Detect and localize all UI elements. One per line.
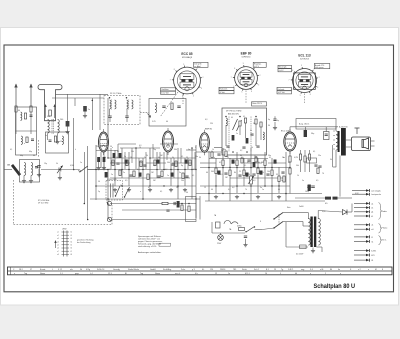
svg-text:5: 5 — [300, 95, 301, 97]
capacitor C15 — [238, 175, 241, 176]
svg-text:0,1: 0,1 — [167, 147, 169, 149]
svg-text:2n: 2n — [111, 174, 113, 176]
svg-text:AM: AM — [7, 164, 10, 167]
svg-text:13: 13 — [60, 141, 62, 143]
capacitor C10 — [171, 164, 174, 165]
wire drop to AM coil — [67, 94, 69, 121]
label box above T4 — [252, 102, 267, 106]
volume potentiometer P1 — [248, 176, 254, 184]
capacitor C21 boxed — [324, 132, 330, 140]
label box at ECC 85 pin 3 — [161, 88, 176, 91]
wire tuner output — [41, 169, 79, 171]
tube V4 ECL113 — [281, 129, 296, 154]
resistor R10 — [154, 160, 156, 166]
terminal X7 — [354, 235, 373, 238]
svg-text:30p: 30p — [223, 149, 226, 151]
wire speaker return — [332, 145, 334, 167]
svg-text:sind zulässig. ±10%: sind zulässig. ±10% — [138, 246, 157, 248]
svg-text:2n: 2n — [123, 172, 125, 174]
resistor R30 — [211, 152, 213, 158]
notes text block — [138, 235, 171, 254]
AM filter box 2 — [46, 132, 69, 153]
resistor R1 on antenna 1 — [15, 106, 17, 112]
antenna input arrow 2 — [29, 84, 32, 107]
svg-text:60: 60 — [33, 155, 35, 157]
svg-text:40: 40 — [211, 189, 213, 191]
svg-text:40: 40 — [158, 157, 160, 159]
ground — [169, 188, 173, 192]
svg-text:25p: 25p — [96, 146, 99, 148]
svg-text:4 Rg: 4 Rg — [86, 269, 90, 271]
antenna input arrow 1 — [14, 84, 17, 107]
svg-text:Ratio 230 V: Ratio 230 V — [252, 102, 263, 105]
svg-text:Ausg. Übertr.: Ausg. Übertr. — [299, 123, 310, 126]
transformer T1 AM antenna coil — [47, 116, 60, 144]
capacitor C17 — [266, 174, 269, 175]
T-antenna symbol — [38, 85, 62, 121]
svg-text:0,1: 0,1 — [313, 151, 315, 153]
svg-text:a6: a6 — [57, 248, 59, 250]
svg-text:Steuergitt.: Steuergitt. — [279, 66, 288, 69]
svg-text:0,1: 0,1 — [109, 169, 111, 171]
svg-text:5k: 5k — [211, 151, 213, 153]
svg-text:25: 25 — [186, 157, 188, 159]
ferrite rod antenna — [7, 164, 21, 176]
svg-text:30: 30 — [186, 192, 188, 194]
svg-text:50k: 50k — [296, 165, 299, 167]
AM filter box 1 — [16, 107, 37, 155]
svg-text:25n: 25n — [139, 162, 142, 164]
ground — [183, 188, 187, 192]
svg-text:2: 2 — [260, 75, 261, 77]
svg-text:6250/6AQ8: 6250/6AQ8 — [182, 56, 193, 59]
svg-text:4p: 4p — [268, 119, 270, 121]
svg-text:0,1: 0,1 — [148, 187, 150, 189]
wire mesh mixer/IF left — [87, 98, 200, 220]
svg-text:4: 4 — [310, 94, 311, 96]
svg-text:23: 23 — [274, 269, 276, 271]
svg-text:20k: 20k — [181, 180, 184, 182]
svg-text:62T/E253: 62T/E253 — [300, 58, 310, 60]
svg-text:0,5: 0,5 — [241, 157, 243, 159]
capacitor C9 — [157, 176, 160, 177]
resistor R35 — [105, 172, 108, 178]
svg-text:789: 789 — [233, 269, 236, 271]
terminal ext speaker 2 — [352, 193, 381, 196]
resistor R26 — [264, 160, 266, 166]
power transformer T6 — [286, 211, 322, 256]
resistor R6 — [126, 160, 128, 166]
IF transformer T2 FM 10.7 MHz (dashed box) — [104, 93, 140, 125]
svg-text:0,7M: 0,7M — [294, 157, 298, 159]
svg-text:30k: 30k — [174, 149, 177, 151]
svg-text:a3: a3 — [57, 238, 59, 240]
svg-text:0,1: 0,1 — [288, 162, 290, 164]
svg-text:5: 5 — [195, 147, 196, 149]
svg-text:D.R.P.: D.R.P. — [288, 269, 294, 271]
svg-text:EBF 80: EBF 80 — [205, 129, 213, 131]
svg-text:gepr.: gepr. — [75, 272, 80, 275]
svg-text:20: 20 — [233, 162, 235, 164]
svg-text:23456: 23456 — [220, 269, 225, 271]
svg-text:Zchn: Zchn — [181, 269, 185, 271]
svg-text:0,2: 0,2 — [165, 169, 167, 171]
svg-text:-0,6 V: -0,6 V — [279, 70, 285, 72]
capacitor C7 — [129, 175, 132, 176]
svg-text:Änderungen vorbehalten.: Änderungen vorbehalten. — [138, 251, 162, 254]
mains switch S5 — [262, 213, 295, 230]
svg-text:B 1: B 1 — [266, 269, 269, 271]
svg-text:300: 300 — [211, 171, 214, 173]
svg-text:4n: 4n — [255, 157, 257, 159]
resistor R24 — [243, 170, 245, 176]
svg-text:0,1: 0,1 — [181, 156, 183, 158]
capacitor C8 — [143, 165, 146, 166]
terminal X10 — [354, 254, 375, 257]
svg-text:0,3: 0,3 — [253, 180, 255, 182]
svg-text:1n: 1n — [262, 189, 264, 191]
svg-text:3: 3 — [258, 84, 259, 86]
resistor R21 — [222, 160, 224, 166]
resistor R25 — [257, 168, 259, 174]
svg-text:5k: 5k — [56, 163, 58, 165]
svg-text:124: 124 — [210, 269, 213, 271]
svg-text:40: 40 — [166, 121, 168, 123]
svg-text:20: 20 — [248, 174, 250, 176]
svg-text:240: 240 — [60, 119, 63, 121]
svg-text:8p: 8p — [181, 165, 183, 167]
svg-text:Ersatz: Ersatz — [40, 268, 45, 271]
ground — [256, 195, 260, 199]
svg-text:Tag: Tag — [140, 273, 143, 275]
resistor R28 — [278, 176, 280, 182]
svg-text:ECL 113: ECL 113 — [298, 53, 311, 57]
resistor R13 — [182, 173, 184, 179]
svg-text:a: a — [112, 147, 113, 149]
svg-text:0,5: 0,5 — [316, 180, 318, 182]
svg-text:k1: k1 — [371, 216, 373, 218]
svg-text:Netz: Netz — [287, 206, 291, 209]
svg-text:Spannungen mit Röhren-: Spannungen mit Röhren- — [138, 235, 162, 238]
terminal ext speaker 1 — [352, 189, 381, 192]
resistor R11 — [161, 171, 163, 177]
svg-text:8: 8 — [234, 68, 235, 70]
svg-text:70: 70 — [322, 173, 324, 175]
electrolytic capacitor C20 — [304, 130, 316, 137]
svg-text:6n: 6n — [283, 157, 285, 159]
svg-text:60: 60 — [18, 110, 20, 112]
junction dots — [95, 157, 290, 199]
band switch S1 — [79, 166, 108, 172]
svg-text:12.3: 12.3 — [108, 273, 112, 275]
fuse holders — [295, 197, 352, 205]
svg-text:0,1: 0,1 — [244, 165, 246, 167]
svg-text:6,3V1: 6,3V1 — [371, 251, 376, 253]
svg-text:12: 12 — [215, 273, 217, 275]
svg-text:gesehen in Richtung: gesehen in Richtung — [77, 238, 93, 241]
voltage selector — [212, 221, 245, 235]
component cluster below T4 — [241, 157, 260, 167]
resistor R9 — [147, 174, 149, 180]
svg-text:10k: 10k — [131, 151, 134, 153]
wire antenna stub — [4, 169, 12, 171]
resistor R2 on antenna 2 — [30, 106, 32, 112]
svg-text:0,9-2 Volt: 0,9-2 Volt — [161, 92, 169, 95]
svg-text:u1: u1 — [371, 225, 373, 227]
svg-text:0,5M: 0,5M — [70, 165, 74, 167]
capacitor C14 — [224, 173, 227, 174]
UKW tuner enclosure (dashed) — [13, 180, 15, 224]
coil box L2/L3 input tuning — [20, 160, 40, 183]
svg-text:1n: 1n — [236, 133, 238, 135]
ground — [214, 195, 218, 199]
resistor R23 — [236, 160, 238, 166]
svg-text:5p: 5p — [124, 156, 126, 158]
svg-text:k1: k1 — [71, 232, 73, 234]
svg-text:7k: 7k — [245, 189, 247, 191]
svg-text:0,2: 0,2 — [240, 150, 242, 152]
svg-text:6V m.: 6V m. — [382, 240, 388, 242]
phono jack J2 — [107, 217, 111, 221]
svg-text:0,1: 0,1 — [160, 191, 162, 193]
ground — [127, 188, 131, 192]
resistor R14 — [189, 160, 191, 166]
svg-text:5k: 5k — [116, 157, 118, 159]
svg-text:9n: 9n — [260, 187, 262, 189]
component value labels — [10, 119, 359, 223]
svg-text:a: a — [115, 192, 116, 194]
terminal X3 — [354, 210, 373, 213]
svg-text:(GW): (GW) — [237, 226, 242, 228]
svg-text:ers. d.: ers. d. — [175, 272, 181, 275]
svg-text:a4: a4 — [57, 241, 59, 243]
resistor R31 — [225, 151, 227, 157]
svg-text:5k: 5k — [253, 123, 255, 125]
wire anode to output transformer — [289, 127, 291, 132]
negative feedback network — [307, 158, 322, 191]
svg-text:Fürth/Bay: Fürth/Bay — [163, 268, 171, 271]
terminal X4 — [354, 215, 373, 218]
svg-text:30: 30 — [104, 157, 106, 159]
ground — [148, 188, 152, 192]
svg-text:0,1: 0,1 — [219, 162, 221, 164]
svg-text:62F/E254: 62F/E254 — [242, 56, 252, 58]
switch contact ladder S2 (UKW-AM) — [54, 229, 93, 257]
switch S4 — [245, 226, 262, 232]
resistor R3 in T-antenna stem — [49, 110, 52, 116]
svg-text:7: 7 — [289, 79, 290, 81]
resistor R8 — [140, 161, 142, 167]
svg-text:12: 12 — [227, 157, 229, 159]
terminal X11 — [354, 259, 373, 262]
svg-text:60p: 60p — [29, 151, 32, 153]
terminal X5 — [354, 223, 373, 226]
svg-text:1k: 1k — [125, 165, 127, 167]
tube socket U2 EBF 80 (pin view) — [231, 51, 261, 93]
svg-text:w1: w1 — [371, 229, 373, 231]
wire mesh IF/AF right — [196, 148, 325, 202]
svg-text:p 3: p 3 — [192, 269, 195, 271]
svg-text:AM 460 kHz: AM 460 kHz — [228, 112, 239, 115]
svg-text:100µ: 100µ — [305, 191, 309, 193]
svg-text:0,1: 0,1 — [117, 151, 119, 153]
svg-text:0,2: 0,2 — [153, 165, 155, 167]
svg-text:7p: 7p — [144, 157, 146, 159]
svg-text:4: 4 — [193, 95, 194, 97]
dashed link from ECC85 socket — [160, 92, 178, 117]
svg-text:ECC 85: ECC 85 — [181, 52, 192, 56]
output transformer T5 — [333, 127, 346, 167]
svg-text:60: 60 — [206, 172, 208, 174]
svg-text:u: u — [140, 191, 141, 193]
svg-text:44: 44 — [295, 273, 297, 275]
svg-text:0,1: 0,1 — [192, 175, 194, 177]
svg-text:70p: 70p — [153, 149, 156, 151]
svg-text:6,3: 6,3 — [205, 119, 207, 121]
parts list table — [8, 267, 393, 275]
svg-text:a.M.: a.M. — [320, 269, 324, 271]
svg-text:k4: k4 — [71, 241, 73, 243]
svg-text:0,4: 0,4 — [232, 187, 234, 189]
terminal X2 — [354, 206, 373, 209]
svg-text:St.Rü 14: St.Rü 14 — [97, 268, 104, 271]
svg-text:5: 5 — [241, 92, 242, 94]
svg-text:18: 18 — [130, 157, 132, 159]
tuning gang dashed link — [140, 112, 149, 114]
svg-text:50: 50 — [98, 181, 100, 183]
phono jack J1 — [107, 201, 112, 205]
svg-text:bei 220V~: bei 220V~ — [296, 254, 304, 256]
svg-text:0,3: 0,3 — [220, 174, 222, 176]
wire antenna feed upper — [56, 93, 109, 95]
svg-text:EBF 80: EBF 80 — [241, 51, 252, 55]
svg-text:25: 25 — [239, 171, 241, 173]
svg-text:500: 500 — [47, 116, 50, 118]
svg-text:0,05: 0,05 — [322, 211, 325, 213]
svg-text:ang.: ang. — [301, 269, 305, 271]
svg-text:10: 10 — [139, 175, 141, 177]
svg-text:220: 220 — [210, 123, 213, 125]
svg-text:4p: 4p — [277, 120, 279, 122]
svg-text:0,1: 0,1 — [193, 169, 195, 171]
brace group Phono — [379, 224, 389, 234]
loudspeaker LS1 — [346, 128, 375, 151]
svg-text:1n: 1n — [80, 162, 82, 164]
fuse Si1 — [237, 226, 245, 231]
svg-text:5: 5 — [280, 273, 281, 275]
svg-text:Radio: Radio — [382, 211, 388, 213]
svg-text:5n: 5n — [188, 149, 190, 151]
resistor R27 — [271, 170, 273, 176]
wire antenna feed lower — [52, 97, 104, 99]
svg-text:40p: 40p — [20, 155, 23, 157]
oscillator coil box T3 — [149, 99, 186, 127]
capacitor C32 dark pair — [97, 157, 100, 162]
svg-text:50k: 50k — [120, 185, 123, 187]
capacitor C33 — [217, 154, 220, 155]
svg-text:3k: 3k — [330, 159, 332, 161]
wire stubs extra — [100, 144, 286, 178]
capacitor C24 to ground — [243, 236, 247, 247]
svg-text:57: 57 — [30, 269, 32, 271]
svg-text:Stück: Stück — [242, 268, 247, 271]
svg-text:15: 15 — [204, 187, 206, 189]
svg-text:k6: k6 — [71, 248, 73, 250]
svg-text:1n: 1n — [45, 135, 47, 137]
resistor R12 — [175, 161, 177, 167]
svg-text:10k: 10k — [267, 171, 270, 173]
svg-text:k8: k8 — [71, 254, 73, 256]
brace group TA — [379, 236, 388, 245]
svg-text:5n: 5n — [281, 180, 283, 182]
svg-text:1:1: 1:1 — [60, 273, 63, 275]
svg-text:a1: a1 — [371, 203, 373, 205]
tube V1 ECC85 triode a — [99, 129, 109, 155]
capacitor C2 — [83, 106, 87, 112]
svg-text:k3: k3 — [71, 238, 73, 240]
IF transformer T4 FM/AM 460kHz — [222, 108, 267, 155]
tube socket U1 ECC 85 (pin view) — [170, 52, 204, 98]
svg-text:3: 3 — [201, 88, 202, 90]
svg-text:a2: a2 — [57, 235, 59, 237]
svg-text:Name: Name — [155, 273, 160, 275]
svg-text:ECL 113: ECL 113 — [281, 131, 290, 133]
variable capacitor C5 tuning — [57, 166, 63, 180]
svg-text:9: 9 — [243, 63, 244, 65]
svg-text:Kathode: Kathode — [278, 88, 285, 91]
svg-text:k2: k2 — [71, 235, 73, 237]
svg-text:9: 9 — [183, 64, 184, 66]
svg-text:n1: n1 — [371, 241, 373, 243]
terminal X1 — [354, 202, 373, 205]
svg-text:2x600: 2x600 — [299, 206, 304, 208]
brace group Radio — [379, 203, 388, 220]
svg-text:30: 30 — [268, 125, 270, 127]
svg-text:01: 01 — [371, 260, 373, 262]
capacitor C11 — [185, 176, 188, 177]
resistor chain below V4 — [283, 150, 311, 194]
label box at ECC 85 pin 7 — [194, 62, 209, 67]
svg-text:50k: 50k — [167, 162, 170, 164]
svg-text:13p: 13p — [44, 163, 47, 165]
svg-text:6L.: 6L. — [202, 269, 205, 271]
wire AM filter to mixer — [73, 135, 75, 170]
wire vertical feeders left — [87, 146, 89, 220]
svg-text:S 4: S 4 — [310, 269, 313, 271]
label box at ECL 113 anode — [314, 64, 330, 69]
rectifier D1 — [318, 204, 352, 215]
svg-text:70: 70 — [139, 147, 141, 149]
svg-text:Lautspreche: Lautspreche — [371, 193, 381, 196]
svg-text:GmbH: GmbH — [150, 269, 156, 271]
svg-text:Schaltplan 80 U: Schaltplan 80 U — [314, 283, 356, 290]
tube V2 ECC85 triode b — [163, 128, 174, 155]
label box at EBF 80 pin 8 — [253, 62, 266, 67]
svg-text:Phono: Phono — [382, 228, 389, 230]
svg-text:Ratio-Det.: Ratio-Det. — [220, 88, 229, 91]
svg-text:Name: Name — [40, 273, 45, 275]
capacitor C6 — [116, 163, 119, 164]
svg-text:m. Abgl.: m. Abgl. — [194, 65, 201, 68]
svg-text:Tag: Tag — [24, 273, 27, 275]
svg-text:Sch 2: Sch 2 — [254, 269, 259, 271]
svg-text:L 4: L 4 — [90, 273, 93, 275]
resistor R7 — [133, 171, 135, 177]
svg-text:1k: 1k — [262, 172, 264, 174]
svg-text:k5: k5 — [71, 245, 73, 247]
capacitor C34 dark — [113, 153, 116, 158]
svg-text:Tg: Tg — [281, 269, 283, 271]
